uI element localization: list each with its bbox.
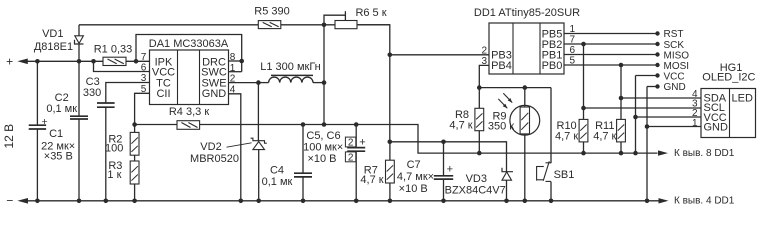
svg-text:8: 8 (230, 52, 236, 63)
svg-text:VD2: VD2 (200, 141, 221, 153)
svg-text:MOSI: MOSI (664, 61, 690, 72)
svg-text:MBR0520: MBR0520 (190, 153, 239, 165)
svg-text:DD1 ATtiny85-20SUR: DD1 ATtiny85-20SUR (474, 7, 580, 19)
svg-text:GND: GND (202, 88, 227, 100)
svg-text:4,7 к: 4,7 к (593, 131, 616, 143)
svg-text:C5, C6: C5, C6 (306, 130, 340, 142)
svg-text:4,7 мк×: 4,7 мк× (397, 171, 434, 183)
svg-text:К выв. 8 DD1: К выв. 8 DD1 (674, 148, 735, 159)
svg-text:2: 2 (482, 45, 488, 56)
svg-text:RST: RST (664, 29, 684, 40)
svg-text:2: 2 (348, 138, 354, 149)
svg-text:SCK: SCK (664, 40, 685, 51)
svg-text:R6 5 к: R6 5 к (355, 7, 386, 19)
svg-text:2: 2 (348, 152, 354, 163)
svg-text:3: 3 (141, 73, 147, 84)
svg-text:+: + (6, 54, 13, 68)
svg-text:DA1 MC33063A: DA1 MC33063A (149, 38, 229, 50)
svg-text:L1 300 мкГн: L1 300 мкГн (260, 61, 321, 73)
svg-text:1: 1 (570, 24, 576, 35)
svg-text:4,7 к: 4,7 к (360, 174, 383, 186)
svg-text:GND: GND (704, 122, 729, 134)
svg-text:×10 В: ×10 В (399, 183, 428, 195)
svg-text:SB1: SB1 (554, 169, 575, 181)
svg-text:BZX84C4V7: BZX84C4V7 (445, 185, 506, 197)
svg-text:0,1 мк: 0,1 мк (46, 103, 77, 115)
svg-text:4,7 к: 4,7 к (555, 131, 578, 143)
svg-text:1 к: 1 к (107, 169, 121, 181)
svg-text:R5 390: R5 390 (254, 5, 289, 17)
svg-text:4: 4 (230, 85, 236, 96)
svg-text:PB4: PB4 (491, 60, 512, 72)
svg-text:VD1: VD1 (42, 28, 63, 40)
svg-text:VD3: VD3 (466, 173, 487, 185)
svg-text:5: 5 (570, 55, 576, 66)
svg-text:C4: C4 (270, 165, 284, 177)
svg-text:VCC: VCC (664, 72, 685, 83)
svg-text:PB0: PB0 (542, 60, 563, 72)
svg-text:К выв. 4 DD1: К выв. 4 DD1 (674, 196, 735, 207)
svg-text:+: + (42, 116, 48, 128)
svg-text:2: 2 (230, 74, 236, 85)
svg-text:−: − (6, 194, 13, 208)
svg-text:4,7 к: 4,7 к (449, 120, 472, 132)
svg-text:MISO: MISO (664, 50, 690, 61)
svg-text:350 к: 350 к (488, 120, 514, 132)
svg-text:LED: LED (732, 93, 753, 105)
svg-text:×10 В: ×10 В (307, 153, 336, 165)
svg-text:C1: C1 (49, 128, 63, 140)
svg-text:6: 6 (141, 63, 147, 74)
svg-text:100 мк×: 100 мк× (303, 142, 343, 154)
svg-text:100: 100 (105, 142, 123, 154)
svg-text:C7: C7 (407, 159, 421, 171)
svg-text:CII: CII (156, 88, 170, 100)
svg-text:3: 3 (482, 56, 488, 67)
svg-text:12 В: 12 В (2, 124, 16, 149)
svg-text:6: 6 (570, 45, 576, 56)
svg-text:0,1 мк: 0,1 мк (262, 176, 293, 188)
svg-text:+: + (447, 164, 453, 176)
svg-text:Д818Е1: Д818Е1 (34, 41, 73, 53)
svg-text:+: + (359, 137, 365, 149)
svg-text:×35 В: ×35 В (44, 151, 73, 163)
svg-text:GND: GND (664, 82, 686, 93)
svg-text:5: 5 (141, 84, 147, 95)
svg-text:1: 1 (230, 63, 236, 74)
svg-text:R4 3,3 к: R4 3,3 к (169, 106, 209, 118)
svg-text:R1 0,33: R1 0,33 (94, 43, 133, 55)
svg-text:1: 1 (692, 118, 698, 129)
svg-text:330: 330 (83, 87, 101, 99)
svg-text:OLED_I2C: OLED_I2C (702, 72, 755, 84)
svg-text:7: 7 (141, 52, 147, 63)
